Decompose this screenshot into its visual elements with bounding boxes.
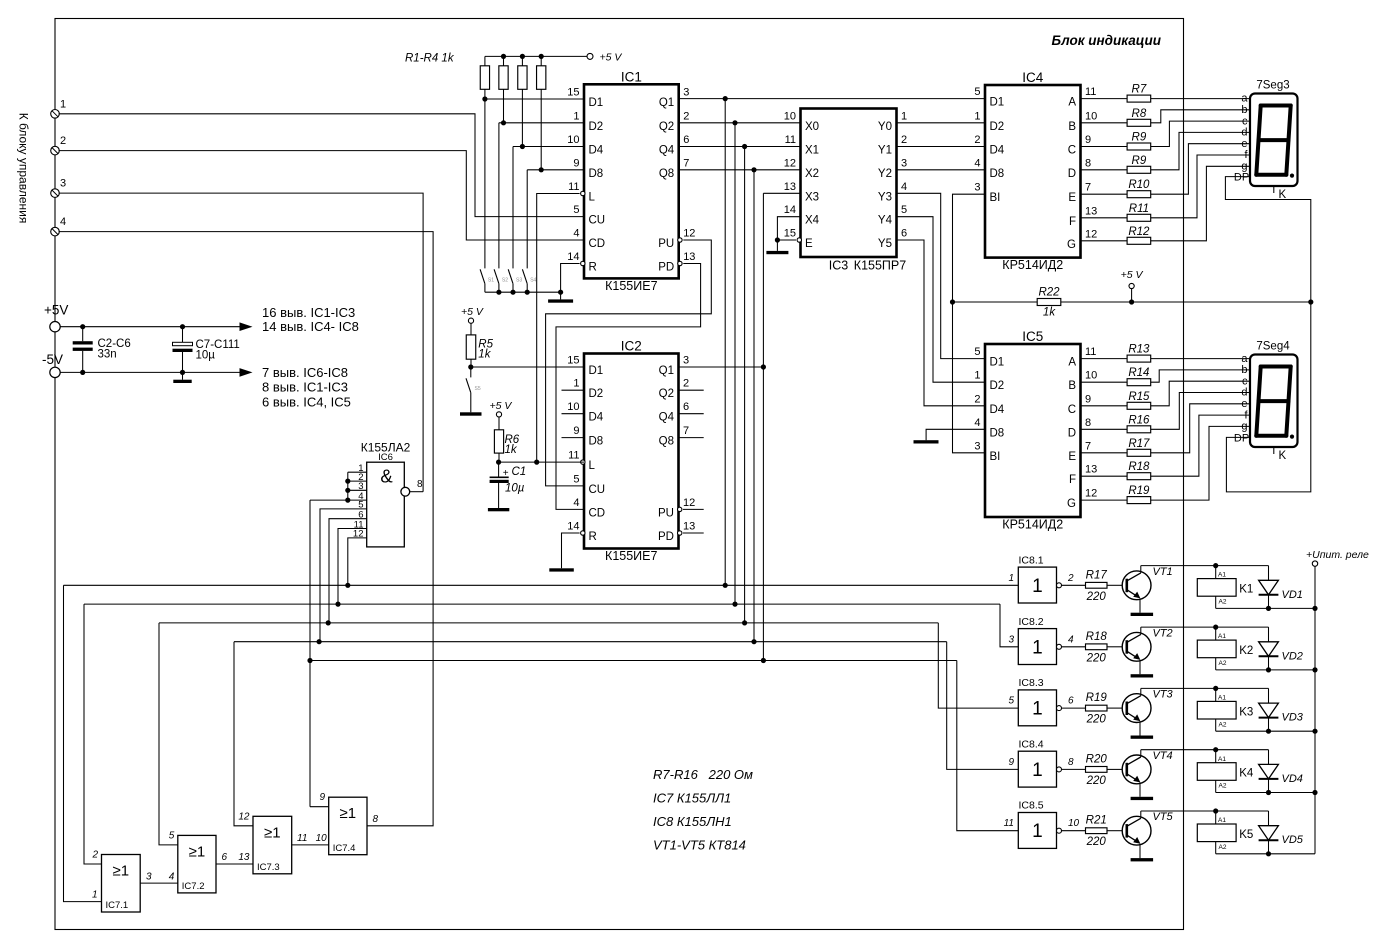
svg-text:14: 14: [784, 204, 796, 216]
svg-text:A1: A1: [1218, 756, 1226, 763]
svg-text:14: 14: [567, 521, 579, 533]
wire: R18 to VT2 base: [1107, 646, 1123, 648]
svg-text:IC8.3: IC8.3: [1019, 677, 1044, 689]
svg-text:A2: A2: [1219, 783, 1227, 790]
svg-text:R16: R16: [1128, 414, 1150, 426]
ground symbol at S5: [460, 412, 482, 415]
svg-text:3: 3: [901, 157, 907, 169]
gate IC7.2 (OR): [178, 835, 216, 893]
svg-text:K3: K3: [1239, 706, 1253, 718]
terminal +5 V for R5: [468, 318, 473, 323]
ground symbol at IC2.R: [549, 568, 574, 571]
transistor VT4 (KT814): [1122, 755, 1151, 784]
wire: IC8.5 output to R21: [1062, 830, 1086, 832]
svg-text:11: 11: [568, 450, 579, 462]
terminal 1 (screw contact to control block): [51, 110, 60, 119]
svg-text:e: e: [1241, 398, 1247, 410]
svg-text:8: 8: [1068, 757, 1074, 768]
svg-text:IC8.4: IC8.4: [1019, 738, 1044, 750]
svg-text:R12: R12: [1128, 226, 1150, 238]
wire: switch common line: [485, 291, 561, 293]
relay K5 coil: [1215, 811, 1217, 824]
wire: bus row 5 jog to IC8.5 input 11: [957, 661, 1019, 831]
terminal 3 (screw contact to control block): [51, 189, 60, 198]
svg-text:E: E: [805, 238, 813, 250]
svg-text:9: 9: [1008, 757, 1014, 768]
svg-text:D1: D1: [990, 97, 1005, 109]
svg-text:c: c: [1242, 375, 1248, 387]
svg-text:R20: R20: [1086, 753, 1108, 765]
svg-text:1: 1: [1032, 760, 1043, 781]
svg-text:Y5: Y5: [878, 238, 892, 250]
wire: IC7.1 output 3 to IC7.2 pin 4: [140, 882, 178, 884]
svg-text:K1: K1: [1239, 584, 1253, 596]
display 7Seg4 (7-segment indicator): [1250, 355, 1298, 448]
svg-text:VT2: VT2: [1153, 627, 1173, 639]
wire: +U supply bus: [1314, 566, 1316, 854]
svg-text:6: 6: [222, 852, 228, 863]
resistor R17 220: [1086, 582, 1108, 588]
IC U1: counter IC1 К155ИЕ7: [584, 84, 679, 278]
svg-text:12: 12: [683, 497, 695, 509]
stub: IC2.D4: [562, 413, 585, 415]
resistor R3: [521, 56, 523, 65]
svg-text:9: 9: [573, 157, 579, 169]
resistor R10 (IC4 7 to 7Seg3 e): [1081, 193, 1128, 195]
svg-text:1: 1: [573, 110, 579, 122]
svg-text:2: 2: [60, 135, 66, 147]
wire: IC1.PD to IC2.CD: [556, 264, 701, 510]
wire: R22 net down to 7Seg4.DP: [1226, 302, 1310, 492]
svg-text:11: 11: [1004, 818, 1014, 829]
svg-text:C: C: [1068, 145, 1076, 157]
svg-text:11: 11: [297, 833, 307, 844]
svg-text:2: 2: [1067, 573, 1074, 584]
wire: IC4.BI / IC5.BI bus: [953, 194, 986, 453]
svg-text:5: 5: [169, 830, 175, 841]
svg-text:F: F: [1069, 216, 1076, 228]
ground symbol at IC3.E: [776, 240, 778, 251]
svg-text:D: D: [1068, 168, 1076, 180]
svg-text:220: 220: [1086, 836, 1107, 848]
svg-text:Y3: Y3: [878, 191, 892, 203]
svg-text:VD5: VD5: [1282, 834, 1304, 846]
svg-text:+5 V: +5 V: [600, 52, 623, 64]
diode VD5: [1268, 811, 1270, 826]
svg-text:BI: BI: [990, 451, 1001, 463]
wire: VT2 collector to relay K2 and VD2: [1140, 627, 1142, 634]
diode VD2: [1268, 627, 1270, 642]
terminal +5 V for R6: [496, 412, 501, 417]
svg-text:A2: A2: [1219, 721, 1227, 728]
wire: -5V rail: [60, 371, 240, 373]
wire: IC3.Y1 to IC4.D4: [897, 146, 986, 148]
svg-text:VT3: VT3: [1153, 689, 1174, 701]
wire: terminal 1 to IC1.CU: [59, 114, 584, 217]
svg-text:DP: DP: [1234, 172, 1249, 184]
svg-text:1k: 1k: [505, 444, 518, 456]
svg-text:VT5: VT5: [1153, 811, 1174, 823]
svg-text:K: K: [1279, 450, 1287, 462]
svg-text:6: 6: [901, 228, 907, 240]
resistor R15 (IC5 9 to 7Seg4 c): [1081, 405, 1128, 407]
svg-text:5: 5: [974, 86, 980, 98]
svg-text:Y2: Y2: [878, 168, 892, 180]
svg-text:R17: R17: [1086, 569, 1108, 581]
arrow: +5V rail to ICs: [240, 322, 253, 331]
svg-text:7: 7: [1085, 440, 1091, 452]
diode VD3: [1268, 688, 1270, 703]
wire: IC1.Q4 to IC3.X1: [679, 146, 801, 148]
resistor R13 (IC5 11 to 7Seg4 a): [1081, 358, 1128, 360]
svg-text:&: &: [380, 466, 393, 487]
wire: +5V rail: [60, 326, 240, 328]
svg-text:A1: A1: [1218, 817, 1226, 824]
svg-text:R: R: [589, 262, 597, 274]
svg-text:a: a: [1241, 93, 1248, 105]
svg-text:A1: A1: [1218, 633, 1226, 640]
wire: bus row 5 net into IC7.4 pin 9: [310, 806, 329, 808]
svg-text:IC1: IC1: [621, 69, 642, 84]
svg-text:IC7.2: IC7.2: [182, 881, 205, 892]
svg-text:6: 6: [683, 134, 689, 146]
wire: IC8.1 output to R17: [1062, 584, 1086, 586]
wire: IC8.4 output to R20: [1062, 768, 1086, 770]
wire: VT1 collector to relay K1 and VD1: [1140, 566, 1142, 573]
wire: bus row 3 (IC1.Q4 net): [159, 622, 938, 624]
svg-text:D8: D8: [589, 168, 604, 180]
svg-text:4: 4: [974, 417, 980, 429]
svg-text:3: 3: [1008, 634, 1014, 645]
wire: column to switch S2: [498, 123, 500, 269]
wire: bus row 3 drop to IC7.2 pin 5: [159, 623, 178, 845]
svg-text:4: 4: [974, 157, 980, 169]
svg-text:1: 1: [1032, 821, 1043, 842]
svg-text:10: 10: [1085, 110, 1097, 122]
svg-text:13: 13: [784, 181, 796, 193]
resistor R1: [484, 56, 486, 65]
wire: IC7.2 output 6 to IC7.3 pin 13: [216, 863, 253, 865]
svg-text:7Seg3: 7Seg3: [1256, 80, 1289, 92]
wire: IC1.D4 row with R3 tap: [513, 146, 584, 148]
svg-text:+Uпит. реле: +Uпит. реле: [1306, 549, 1369, 561]
wire: IC3.Y3 to IC5.D1: [897, 193, 986, 358]
wire: column to switch S1: [484, 99, 486, 268]
resistor R8 (IC4 10 to 7Seg3 b): [1081, 122, 1128, 124]
resistor R11 (IC4 13 to 7Seg3 f): [1081, 217, 1128, 219]
svg-text:DP: DP: [1234, 432, 1249, 444]
relay K1 coil: [1215, 566, 1217, 579]
svg-text:8 выв. IC1-IC3: 8 выв. IC1-IC3: [262, 380, 348, 395]
switch S4: [522, 269, 527, 283]
svg-text:9: 9: [1085, 393, 1091, 405]
svg-text:10µ: 10µ: [196, 350, 216, 362]
svg-text:R: R: [589, 531, 597, 543]
svg-text:C: C: [1068, 404, 1076, 416]
svg-text:11: 11: [1085, 86, 1096, 98]
ground symbol at VT4 emitter: [1131, 797, 1154, 800]
node: R5 / S5 / IC2.D1 junction: [468, 364, 473, 369]
svg-text:IC8 К155ЛН1: IC8 К155ЛН1: [653, 814, 732, 829]
svg-text:1: 1: [573, 378, 579, 390]
svg-text:КР514ИД2: КР514ИД2: [1002, 518, 1063, 532]
svg-text:Блок индикации: Блок индикации: [1052, 33, 1162, 48]
svg-text:L: L: [589, 192, 596, 204]
arrow: -5V rail to ICs: [240, 368, 253, 377]
svg-text:D1: D1: [589, 97, 604, 109]
switch S2: [494, 269, 499, 283]
svg-text:CD: CD: [589, 238, 606, 250]
svg-text:L: L: [589, 460, 596, 472]
wire: IC8.2 output to R18: [1062, 646, 1086, 648]
svg-text:12: 12: [683, 228, 695, 240]
svg-text:E: E: [1068, 451, 1076, 463]
svg-text:Y0: Y0: [878, 121, 892, 133]
svg-text:K5: K5: [1239, 829, 1253, 841]
svg-text:2: 2: [683, 110, 689, 122]
svg-text:R9: R9: [1132, 155, 1147, 167]
resistor R6 1k: [498, 417, 500, 430]
svg-text:10: 10: [1085, 370, 1097, 382]
resistor R21 220: [1086, 828, 1108, 834]
svg-text:X1: X1: [805, 145, 819, 157]
svg-text:CU: CU: [589, 484, 606, 496]
resistor R20 220: [1086, 767, 1108, 773]
wire: IC5.D8 to ground: [926, 429, 985, 440]
svg-text:Q4: Q4: [659, 412, 675, 424]
wire: relay K3 bottom row to +U bus: [1216, 730, 1315, 732]
svg-text:3: 3: [683, 355, 689, 367]
svg-text:КР514ИД2: КР514ИД2: [1002, 258, 1063, 272]
terminal 2 (screw contact to control block): [51, 146, 60, 155]
svg-text:13: 13: [1085, 464, 1097, 476]
resistor R5 1k: [470, 323, 472, 335]
stub: IC2.D8: [562, 437, 585, 439]
svg-text:D: D: [1068, 427, 1076, 439]
svg-text:R19: R19: [1086, 692, 1108, 704]
svg-text:1: 1: [1032, 637, 1043, 658]
svg-text:1: 1: [974, 370, 980, 382]
gate IC8.3 (inverter buffer): [1018, 690, 1056, 726]
svg-text:IC7.1: IC7.1: [106, 900, 129, 911]
svg-text:13: 13: [1085, 205, 1097, 217]
svg-text:D4: D4: [589, 145, 604, 157]
svg-text:4: 4: [573, 497, 579, 509]
wire: L net IC1.L to IC2.L: [537, 194, 580, 463]
svg-text:10: 10: [1068, 818, 1080, 829]
wire: VT4 collector to relay K4 and VD4: [1140, 750, 1142, 757]
diode VD4: [1268, 750, 1270, 765]
svg-text:+5V: +5V: [44, 303, 68, 318]
svg-text:1: 1: [901, 110, 907, 122]
svg-text:A1: A1: [1218, 695, 1226, 702]
wire: +5V rail over R1-R4: [485, 55, 587, 57]
wire: IC8.3 output to R19: [1062, 707, 1086, 709]
svg-text:IC4: IC4: [1022, 70, 1044, 85]
svg-text:R14: R14: [1128, 367, 1149, 379]
svg-text:IC7 К155ЛЛ1: IC7 К155ЛЛ1: [653, 791, 731, 806]
svg-text:IC2: IC2: [621, 339, 642, 354]
svg-text:B: B: [1068, 380, 1076, 392]
IC8.1 output bubble: [1057, 583, 1062, 588]
svg-text:c: c: [1242, 115, 1248, 127]
svg-text:D4: D4: [990, 145, 1005, 157]
svg-text:9: 9: [319, 792, 325, 803]
svg-text:R1-R4 1k: R1-R4 1k: [405, 53, 455, 65]
svg-text:Q8: Q8: [659, 436, 674, 448]
gate IC7.4 (OR): [329, 797, 367, 855]
svg-text:1: 1: [1032, 576, 1043, 597]
wire: terminal 3 to IC6 output: [59, 193, 424, 492]
svg-text:11: 11: [568, 181, 579, 193]
resistor R2: [503, 56, 505, 65]
svg-text:D1: D1: [990, 357, 1005, 369]
svg-text:IC5: IC5: [1022, 329, 1043, 344]
wire: IC3.Y5 to IC5.D4: [897, 240, 986, 406]
svg-text:Q8: Q8: [659, 168, 674, 180]
ground symbol at VT3 emitter: [1131, 736, 1154, 739]
svg-text:3: 3: [974, 182, 980, 194]
switch S5: [470, 367, 472, 377]
svg-text:X3: X3: [805, 191, 819, 203]
svg-text:220: 220: [1086, 775, 1107, 787]
wire: bus row 2 (IC1.Q2 net): [84, 603, 1000, 605]
svg-text:Y1: Y1: [878, 145, 892, 157]
svg-text:D1: D1: [589, 365, 604, 377]
svg-text:1: 1: [92, 890, 98, 901]
diode VD1: [1268, 566, 1270, 581]
svg-text:D8: D8: [990, 427, 1005, 439]
ground symbol at VT5 emitter: [1131, 858, 1154, 861]
svg-text:D2: D2: [589, 121, 604, 133]
svg-text:VD4: VD4: [1282, 773, 1303, 785]
switch S1: [480, 269, 485, 283]
svg-text:220: 220: [1086, 652, 1107, 664]
svg-text:≥1: ≥1: [189, 843, 206, 860]
wire: terminal 2 to IC1.CD: [59, 151, 584, 240]
svg-text:B: B: [1068, 121, 1076, 133]
wire: R20 to VT4 base: [1107, 768, 1123, 770]
svg-text:Y4: Y4: [878, 215, 893, 227]
wire: R19 to VT3 base: [1107, 707, 1123, 709]
wire: column to switch S4: [526, 170, 528, 269]
svg-text:e: e: [1241, 138, 1247, 150]
wire: IC6 pin 11 from bus row 2: [338, 529, 367, 605]
gate IC7.3 (OR): [253, 816, 292, 874]
svg-text:R8: R8: [1132, 108, 1147, 120]
wire: IC6 pin 6 from bus row 3: [329, 519, 367, 623]
svg-text:CU: CU: [589, 215, 606, 227]
svg-text:IC6: IC6: [378, 452, 393, 463]
svg-text:R11: R11: [1129, 203, 1149, 215]
svg-text:b: b: [1241, 364, 1247, 376]
svg-text:2: 2: [91, 850, 98, 861]
svg-text:8: 8: [1085, 157, 1091, 169]
svg-text:X0: X0: [805, 121, 819, 133]
terminal 4 (screw contact to control block): [51, 227, 60, 236]
resistor R9 (IC4 8 to 7Seg3 d): [1081, 169, 1128, 171]
svg-text:S5: S5: [475, 386, 481, 392]
wire: 7Seg3.DP to R22 net: [1225, 177, 1310, 302]
resistor R14 (IC5 10 to 7Seg4 b): [1081, 381, 1128, 383]
wire: IC1.PU to IC2.CU: [546, 240, 712, 486]
transistor VT5 (KT814): [1122, 816, 1151, 845]
power terminal +5V: [50, 322, 60, 332]
svg-text:PU: PU: [658, 507, 674, 519]
IC8.3 output bubble: [1057, 706, 1062, 711]
gate IC7.1 (OR): [102, 855, 141, 913]
wire: IC1.D8 row with R4 tap: [527, 169, 584, 171]
IC8.2 output bubble: [1057, 644, 1062, 649]
svg-text:5: 5: [573, 473, 579, 485]
schematic frame border: [55, 19, 1184, 930]
stub: IC2.Q2: [679, 389, 704, 391]
wire: R17 to VT1 base: [1107, 584, 1123, 586]
svg-text:33n: 33n: [98, 349, 117, 361]
svg-text:A2: A2: [1219, 599, 1227, 606]
capacitor C2-C6 33n: [82, 327, 84, 342]
svg-text:R7-R16 220 Ом: R7-R16 220 Ом: [653, 767, 753, 782]
wire: bus row 2 jog to IC8.2 input 3: [1000, 604, 1018, 647]
wire: bus row 1 drop to IC7.1 pin 1: [64, 585, 102, 901]
svg-text:4: 4: [573, 228, 579, 240]
svg-text:D4: D4: [589, 412, 604, 424]
svg-text:15: 15: [567, 87, 579, 99]
svg-text:R9: R9: [1132, 132, 1147, 144]
wire: relay K5 bottom row to +U bus: [1216, 853, 1315, 855]
svg-text:R18: R18: [1128, 461, 1150, 473]
wire: IC1.R to switch-common ground: [561, 264, 580, 293]
resistor R4: [540, 56, 542, 65]
svg-text:4: 4: [1068, 634, 1074, 645]
svg-text:2: 2: [974, 393, 980, 405]
svg-text:8: 8: [1085, 417, 1091, 429]
transistor VT2 (KT814): [1122, 632, 1151, 661]
svg-text:R15: R15: [1128, 391, 1150, 403]
svg-text:13: 13: [238, 852, 250, 863]
svg-text:D2: D2: [990, 121, 1005, 133]
svg-text:R19: R19: [1128, 485, 1150, 497]
svg-text:D4: D4: [990, 404, 1005, 416]
wire: IC1.Q2 to IC3.X0: [679, 122, 801, 124]
svg-text:d: d: [1241, 387, 1247, 399]
wire: VT3 collector to relay K3 and VD3: [1140, 688, 1142, 695]
wire: junction to IC2.D1: [471, 366, 584, 368]
svg-text:R22: R22: [1038, 287, 1060, 299]
svg-text:VD2: VD2: [1282, 650, 1303, 662]
svg-text:≥1: ≥1: [264, 824, 281, 841]
svg-text:К155ИЕ7: К155ИЕ7: [605, 279, 657, 293]
wire: IC3.Y2 to IC4.D8: [897, 169, 986, 171]
relay K3 coil: [1215, 688, 1217, 701]
transistor VT3 (KT814): [1122, 694, 1151, 723]
svg-text:IC3: IC3: [829, 259, 849, 273]
resistor R22 1k row: [953, 301, 1038, 303]
svg-text:G: G: [1067, 239, 1076, 251]
svg-text:IC7.3: IC7.3: [257, 862, 280, 873]
svg-text:220: 220: [1086, 591, 1107, 603]
wire: IC7.3 output 11 to IC7.4 pin 10: [292, 844, 329, 846]
svg-text:15: 15: [784, 228, 796, 240]
ground symbol at switch common / IC1.R: [560, 292, 562, 299]
IC U6: 8-input NAND IC6 К155ЛА2: [367, 462, 405, 547]
svg-text:7: 7: [683, 425, 689, 437]
wire: node D1 row to IC1.D1: [485, 98, 584, 100]
wire: IC3.X3 from IC2.Q1 (vertical bus): [763, 192, 800, 194]
svg-text:A1: A1: [1218, 572, 1226, 579]
svg-text:4: 4: [60, 216, 66, 228]
svg-text:Q4: Q4: [659, 145, 675, 157]
